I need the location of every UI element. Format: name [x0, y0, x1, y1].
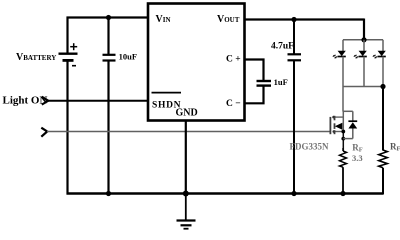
svg-text:1uF: 1uF — [274, 77, 288, 87]
body arrow — [335, 123, 343, 130]
wire: 10uF bottom vertical to ground rail — [107, 61, 109, 195]
wire: battery bottom vertical to ground rail — [66, 62, 68, 195]
capacitor 10uF — [103, 55, 116, 61]
LED D2 — [353, 40, 366, 87]
svg-text:FDG335N: FDG335N — [290, 142, 329, 152]
channel segment bottom — [334, 130, 336, 134]
capacitor 4.7uF — [288, 54, 302, 60]
node dot: source/body on spine — [341, 130, 345, 134]
wire: VOUT drop to LED rail — [363, 19, 365, 41]
capacitor 1uF — [257, 81, 272, 86]
drain stub to channel — [334, 116, 344, 118]
svg-text:GND: GND — [176, 108, 198, 119]
svg-text:VBATTERY: VBATTERY — [16, 52, 56, 63]
wire: VOUT rail — [245, 18, 365, 20]
channel segment top — [334, 116, 336, 121]
node: input chevron 1 — [42, 97, 49, 105]
pin label SHDN — [152, 93, 182, 111]
wire: GND pin vertical — [185, 121, 187, 195]
svg-text:Light ON: Light ON — [3, 95, 48, 107]
LED bottom rail — [343, 86, 383, 88]
node: dot LED bottom rail / RF branch — [380, 84, 385, 89]
node: dot LED rail / VOUT — [361, 37, 366, 42]
wire: battery top vertical — [66, 17, 68, 54]
node: input chevron 2 — [41, 128, 47, 137]
svg-text:VIN: VIN — [156, 14, 171, 25]
node: junction dot top rail / 10uF — [106, 15, 111, 20]
node: junction dot VOUT / 4.7uF — [291, 17, 296, 22]
wire: top rail from battery to VIN — [67, 16, 148, 18]
LED D1 — [332, 40, 345, 87]
drain jog to body-diode branch — [343, 110, 353, 112]
svg-text:C −: C − — [226, 99, 241, 109]
gate bar — [329, 117, 331, 134]
wire: 4.7uF bottom vertical to ground rail — [293, 60, 295, 194]
wire: ground rail — [67, 192, 384, 194]
node: dot rail/4.7uF — [291, 191, 296, 196]
transistor Q1 FDG335N — [330, 111, 357, 151]
battery VBATTERY — [59, 43, 78, 65]
pin pad source stub — [333, 130, 336, 133]
body diode cathode bar — [348, 120, 357, 122]
node: dot rail/GND — [183, 191, 189, 197]
node: dot rail/RF3.3 — [340, 191, 345, 196]
svg-text:3.3: 3.3 — [352, 153, 363, 163]
pin pad drain stub — [332, 116, 335, 119]
ground symbol — [177, 194, 196, 229]
IC U1 LED driver box — [148, 4, 245, 121]
drain-source spine — [342, 111, 344, 131]
node dot: diode return on spine — [341, 137, 345, 141]
wire: 4.7uF top vertical — [293, 20, 295, 55]
node: dot rail/10uF — [106, 191, 111, 196]
body diode return to source — [343, 138, 353, 140]
body diode triangle — [348, 122, 357, 128]
wire: 10uF top vertical — [107, 18, 109, 56]
svg-text:10uF: 10uF — [119, 52, 137, 62]
LED top rail — [343, 39, 383, 41]
wire: C- stub — [245, 86, 264, 104]
svg-text:4.7uF: 4.7uF — [271, 42, 294, 52]
resistor RF (right) — [379, 150, 388, 195]
resistor RF 3.3 — [340, 148, 347, 194]
wire: gate wire to FET — [47, 131, 330, 133]
wire: right branch down from LED rail to RF — [382, 87, 384, 151]
svg-text:VOUT: VOUT — [217, 14, 240, 25]
wire: C+ stub — [245, 60, 264, 82]
channel segment middle — [334, 123, 336, 129]
LED D3 — [372, 40, 385, 87]
source stub to channel — [334, 131, 344, 133]
body diode wire top — [352, 111, 354, 121]
body diode wire bottom — [352, 129, 354, 139]
wire: LED rail down to FET drain — [342, 87, 344, 112]
wire: Light ON to SHDN pin — [48, 100, 148, 102]
svg-text:C +: C + — [226, 55, 241, 65]
